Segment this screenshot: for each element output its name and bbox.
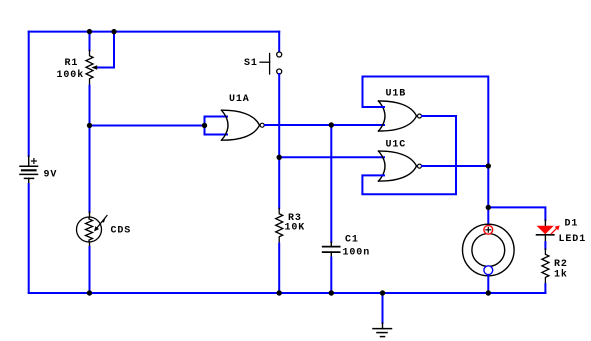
wire: S1 bottom down to R3 (crosses U1A output, junction at feedback node)	[278, 74, 280, 208]
svg-text:100n: 100n	[343, 247, 371, 258]
node: bottom rail / buzzer junction	[486, 290, 491, 295]
wire: R3 bottom to bottom rail	[278, 244, 280, 293]
gate U1C (NOR)	[379, 151, 422, 181]
svg-text:100k: 100k	[57, 69, 85, 81]
switch S1	[260, 52, 282, 74]
wire: CDS bottom to bottom rail	[89, 247, 91, 293]
wire: R1 bottom to node A	[89, 86, 91, 126]
node: bottom rail / R3 junction	[277, 290, 282, 295]
node: top rail / R1 junction	[87, 29, 92, 34]
wire: R2 bottom to bottom rail	[544, 284, 546, 293]
wire: left rail upper (top rail to battery +)	[28, 32, 30, 156]
node: S1-R3 / U1C input junction	[277, 155, 282, 160]
svg-text:10K: 10K	[285, 223, 306, 234]
photocell CDS	[77, 212, 108, 247]
node A: R1-CDS-U1A input junction	[87, 123, 92, 128]
wire: buzzer node to D1 anode	[488, 207, 545, 220]
wire: buzzer node to buzzer top	[487, 207, 489, 226]
svg-text:D1: D1	[565, 219, 579, 230]
wire: C1 branch from U1A output node	[330, 125, 332, 242]
buzzer LS1	[463, 224, 515, 276]
LED D1	[537, 220, 560, 242]
battery 9V	[20, 156, 38, 184]
node: top rail / wiper junction	[111, 29, 116, 34]
wire: R1 top stub	[89, 32, 91, 51]
capacitor C1	[323, 242, 340, 258]
wire: latch top routing (U1C output feedback to U1B upper input)	[363, 77, 489, 167]
svg-text:1k: 1k	[554, 269, 568, 281]
gate U1B (NOR)	[379, 101, 422, 131]
resistor R1 (potentiometer body)	[86, 50, 93, 85]
wire: S1 top stub	[278, 32, 280, 52]
wire: C1 bottom to bottom rail	[330, 258, 332, 294]
wire: U1C output to right rail	[422, 165, 488, 167]
wire: U1B output to bottom routing into U1C lower input	[362, 116, 456, 194]
svg-text:LED1: LED1	[559, 234, 587, 245]
node: U1A input bracket junction	[202, 123, 207, 128]
wire: U1A output to U1B lower input	[265, 124, 384, 126]
node: bottom rail / ground junction	[380, 290, 385, 295]
resistor R3	[276, 208, 283, 243]
svg-text:9V: 9V	[44, 170, 58, 181]
R1 wiper arrowhead	[91, 65, 97, 70]
photocell CDS top stub	[89, 126, 91, 213]
node: bottom rail / CDS junction	[87, 290, 92, 295]
svg-text:S1: S1	[244, 58, 258, 69]
node: U1A output / C1 junction	[329, 122, 334, 127]
wire: D1 cathode to R2	[544, 242, 546, 249]
svg-text:R1: R1	[65, 58, 79, 69]
wire: node A to U1A input bracket	[90, 125, 205, 127]
wire: feedback node to U1C upper input	[279, 156, 384, 158]
node: bottom rail / C1 junction	[329, 290, 334, 295]
ground symbol	[373, 323, 392, 337]
wire: bottom rail	[29, 292, 546, 294]
wire: top rail from left rail to S1	[29, 31, 280, 33]
svg-text:C1: C1	[345, 235, 359, 246]
ground stub	[382, 293, 384, 323]
wire: right rail down to buzzer node	[487, 166, 489, 207]
gate U1A (NOR used as inverter)	[222, 110, 265, 140]
node: U1C output / latch feedback junction	[486, 163, 491, 168]
wire: left rail lower (battery - to bottom rail)	[28, 184, 30, 293]
svg-text:U1C: U1C	[386, 139, 407, 150]
svg-text:CDS: CDS	[111, 226, 132, 237]
wire: buzzer bottom to bottom rail	[487, 276, 489, 294]
svg-text:U1A: U1A	[229, 94, 250, 105]
R1 wiper arm	[97, 32, 114, 68]
resistor R2	[542, 249, 549, 284]
svg-text:U1B: U1B	[386, 88, 407, 99]
wire: U1A input bracket	[204, 117, 206, 135]
svg-text:R2: R2	[554, 259, 568, 270]
node: buzzer / D1 branch junction	[486, 205, 491, 210]
